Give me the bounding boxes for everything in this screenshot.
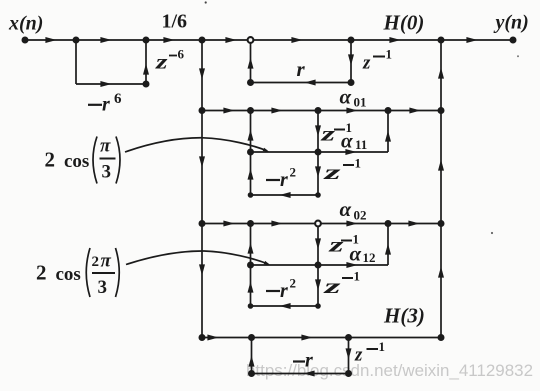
wire H0 r feedback bottom: [251, 82, 352, 84]
wire res2 -r2 up: [250, 265, 252, 306]
arrow res1 -r2 left: [279, 192, 290, 198]
arrow main to rail node: [163, 37, 174, 43]
arrow res1 z-1 down 1: [315, 125, 321, 136]
wire main top line: [25, 39, 513, 41]
arrow res1 top in: [223, 108, 234, 114]
arrow to y(n): [466, 37, 477, 43]
svg-text:α: α: [341, 129, 353, 153]
arrow H0 feedback up: [248, 57, 254, 68]
wire left rail: [201, 40, 203, 338]
svg-text:H(0): H(0): [383, 11, 425, 35]
node output rail top: [438, 37, 445, 44]
arrow res1 adder to delay: [271, 108, 282, 114]
node res2 v1: [315, 262, 322, 269]
node comb branch: [73, 37, 80, 44]
node res2 out rail: [438, 220, 445, 227]
svg-text:r: r: [305, 350, 313, 372]
node H0 feedback corner: [247, 79, 254, 86]
arrow H0 to output rail: [389, 37, 400, 43]
svg-text:2: 2: [36, 261, 47, 285]
svg-text:2: 2: [92, 254, 100, 270]
arrow left rail down 2: [199, 156, 205, 167]
svg-text:3: 3: [102, 162, 112, 183]
svg-text:z: z: [155, 50, 169, 74]
wire comb branch up: [145, 40, 147, 84]
svg-text:r: r: [297, 57, 306, 81]
wire res1 z-1 second: [317, 152, 319, 195]
label -r2 res2: [266, 290, 280, 292]
arrow H3 adder to delay: [301, 335, 312, 341]
arrow right rail up 3: [438, 266, 444, 277]
node output y(n): [510, 37, 517, 44]
wire res1 feedback up: [250, 111, 252, 153]
svg-text:z: z: [323, 274, 343, 298]
wire resonator2 top line: [202, 223, 441, 225]
svg-text:11: 11: [355, 137, 367, 152]
arrow res2 to rail: [408, 221, 419, 227]
wire 2cos1 curve arrow: [125, 138, 267, 152]
wire res2 2cos feedback mid: [251, 264, 319, 266]
arrow res2 -r2 left: [279, 303, 290, 309]
node H0 delay top: [348, 37, 355, 44]
arrow res2 alpha12 right: [346, 262, 357, 268]
wire res1 alpha11 horizontal: [318, 151, 388, 153]
node res1 rail: [199, 107, 206, 114]
arrow res1 feedback up: [248, 129, 254, 140]
arrow res1 to rail: [409, 108, 420, 114]
node res2 adder: [247, 220, 254, 227]
svg-text:α: α: [340, 197, 352, 221]
arrow H0 z-1 down: [348, 54, 354, 65]
speck right upper: [517, 55, 519, 57]
arrow res2 -r2 up: [248, 281, 254, 292]
arrow res2 top in: [223, 221, 234, 227]
node comb loop corner: [143, 81, 150, 88]
svg-text:z: z: [328, 233, 345, 257]
arrow left rail down 1: [199, 68, 205, 79]
arrow res1 -r2 up: [248, 168, 254, 179]
node res2 -r2 corner: [248, 303, 254, 309]
svg-text:1: 1: [386, 47, 393, 62]
svg-text:z: z: [320, 122, 336, 146]
svg-text:1: 1: [379, 339, 386, 354]
svg-text:https://blog.csdn.net/weixin_4: https://blog.csdn.net/weixin_41129832: [246, 362, 533, 380]
arrow H3 feedback up: [249, 355, 255, 366]
arrow res2 alpha02: [346, 221, 357, 227]
wire H3 z-1 down: [348, 338, 350, 374]
arrow res1 alpha11 right: [345, 149, 356, 155]
svg-text:z: z: [362, 53, 371, 74]
node res1 out rail: [438, 107, 445, 114]
label -r6: [88, 104, 102, 106]
wire res1 alpha11 up: [387, 111, 389, 153]
node comb adder: [143, 37, 150, 44]
arrow res1 z-1 down 2: [315, 166, 321, 177]
node res2 w open: [315, 221, 321, 227]
wire H3 feedback up: [251, 338, 253, 374]
arrow right rail up 1: [438, 67, 444, 78]
node H0 delay bottom: [348, 79, 355, 86]
arrow H3 -r left: [303, 371, 314, 377]
svg-text:2: 2: [45, 148, 56, 172]
node res1 fb mid left: [247, 149, 254, 156]
arrow res2 adder to delay: [271, 221, 282, 227]
wire res1 2cos feedback mid: [251, 151, 319, 153]
wire res2 -r2 bottom: [251, 305, 319, 307]
arrow H3 z-1 down: [346, 348, 352, 359]
node left rail top: [199, 37, 206, 44]
node res2 v2: [315, 303, 321, 309]
svg-text:π: π: [101, 251, 112, 272]
arrow comb bottom right: [100, 81, 111, 87]
wire res1 -r2 bottom: [251, 194, 319, 196]
speck top: [205, 1, 207, 3]
arrow H0 r feedback left: [304, 80, 315, 86]
node res1 v2: [315, 192, 321, 198]
node res1 alpha11 join: [385, 107, 392, 114]
svg-text:6: 6: [114, 91, 122, 107]
arrow res2 alpha12 up: [385, 243, 391, 254]
svg-text:1: 1: [354, 269, 361, 284]
svg-text:H(3): H(3): [383, 304, 425, 328]
arrow comb branch up: [143, 63, 149, 74]
wire resonator1 top line: [202, 110, 441, 112]
arrow main x(n) to node: [45, 37, 56, 43]
svg-text:6: 6: [178, 47, 185, 62]
node H3 rail: [199, 334, 206, 341]
wire H3 -r bottom: [252, 373, 349, 375]
arrow left rail down 3: [199, 264, 205, 275]
svg-text:cos: cos: [64, 151, 89, 172]
svg-text:y(n): y(n): [494, 12, 529, 34]
label 2cos(2pi/3): [36, 248, 119, 298]
svg-text:z: z: [354, 345, 363, 366]
arrow res1 alpha11 up: [385, 130, 391, 141]
svg-text:r: r: [280, 169, 288, 191]
svg-text:r: r: [102, 94, 110, 116]
svg-text:π: π: [100, 136, 111, 157]
wire comb -r6 bottom: [76, 83, 146, 85]
node H3 adder: [248, 334, 255, 341]
wire 2cos2 curve arrow: [126, 251, 268, 265]
node H0 adder open: [248, 37, 254, 43]
svg-text:α: α: [350, 242, 362, 266]
svg-text:z: z: [323, 160, 343, 184]
label 2cos(pi/3): [45, 136, 121, 184]
svg-text:2: 2: [290, 276, 297, 291]
arrow right rail up 2: [438, 159, 444, 170]
svg-text:1/6: 1/6: [162, 11, 188, 33]
wire res2 z-1 first: [317, 224, 319, 266]
wire res2 feedback up: [250, 224, 252, 266]
arrow H3 line in: [207, 335, 218, 341]
svg-text:r: r: [280, 280, 288, 302]
wire comb z-6 branch down: [75, 40, 77, 84]
node H3 fb corner left: [248, 370, 255, 377]
node res1 adder: [247, 107, 254, 114]
svg-text:x(n): x(n): [8, 13, 43, 35]
label -r H3: [293, 360, 305, 362]
svg-text:01: 01: [354, 95, 367, 110]
svg-text:1: 1: [355, 156, 362, 171]
svg-text:cos: cos: [56, 264, 81, 285]
wire H0 feedback up: [250, 40, 252, 83]
node H3 rail right: [438, 334, 445, 341]
wire res2 alpha12 up: [387, 224, 389, 266]
arrow main to H0 adder: [225, 37, 236, 43]
node H3 delay top: [345, 334, 352, 341]
arrow res2 z-1 down 1: [315, 238, 321, 249]
node res2 rail: [199, 220, 206, 227]
node res2 fb mid left: [247, 262, 254, 269]
arrow main to comb adder: [100, 37, 111, 43]
wire res1 z-1 first: [317, 111, 319, 153]
node H3 delay bottom: [345, 370, 352, 377]
wire res2 alpha12 horizontal: [318, 264, 388, 266]
node res2 alpha12 join: [385, 220, 392, 227]
wire right rail: [440, 40, 442, 338]
arrow res2 feedback up: [248, 242, 254, 253]
wire res2 z-1 second: [317, 265, 319, 306]
wire res1 -r2 up: [250, 152, 252, 195]
arrow main H0 adder to delay node: [291, 37, 302, 43]
node res1 -r2 corner: [248, 192, 254, 198]
arrow res2 z-1 down 2: [315, 279, 321, 290]
svg-text:12: 12: [363, 250, 376, 265]
arrow res1 alpha01: [346, 108, 357, 114]
svg-text:α: α: [340, 85, 352, 109]
svg-text:3: 3: [98, 277, 108, 298]
label -r2 res1: [266, 179, 280, 181]
node res1 w: [315, 107, 322, 114]
svg-text:02: 02: [354, 208, 367, 223]
node input x(n): [22, 37, 29, 44]
speck right mid: [491, 232, 493, 234]
svg-text:2: 2: [290, 165, 297, 180]
node res1 v1: [315, 149, 322, 156]
wire H0 z-1 down: [350, 40, 352, 83]
wire H3 bottom line: [202, 337, 441, 339]
